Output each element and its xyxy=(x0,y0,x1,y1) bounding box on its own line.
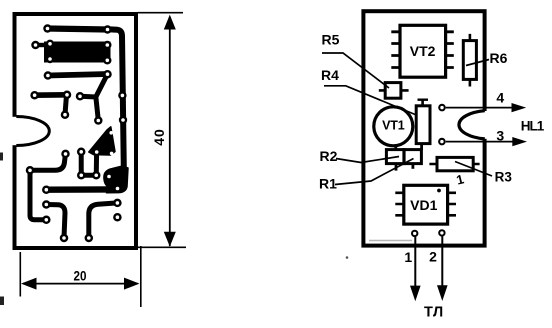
pad D1 xyxy=(30,91,39,100)
svg-text:R1: R1 xyxy=(319,175,337,191)
pad G0 xyxy=(77,148,86,157)
board outline (component side) xyxy=(363,11,489,245)
resistor R6 xyxy=(463,34,476,87)
pad 1 bottom xyxy=(411,230,418,237)
pad C1 xyxy=(44,71,53,80)
wire: stub to pad B0 xyxy=(36,43,48,47)
wire: T1 pad down to G2 xyxy=(94,153,99,175)
pad F3 xyxy=(42,216,51,225)
svg-text:40: 40 xyxy=(151,128,167,146)
pad D2 xyxy=(63,91,72,100)
pad E1 on bus xyxy=(118,91,126,99)
svg-text:R4: R4 xyxy=(321,67,339,83)
pad E2 on bus xyxy=(119,116,127,124)
wire: F1 down then right to F3 xyxy=(30,170,46,220)
pad B4 xyxy=(103,56,111,64)
pad B3 xyxy=(46,55,54,63)
wire: diagonal C2 to junction xyxy=(96,75,107,97)
wire: long trace H to blob xyxy=(46,186,112,193)
wire: D2 down to D3 xyxy=(65,95,67,115)
resistor R3 xyxy=(429,157,479,170)
svg-text:VT2: VT2 xyxy=(410,43,436,59)
pad G2 xyxy=(92,171,101,180)
wire: bend into right vertical bus xyxy=(108,29,124,168)
transistor assembly VT2 xyxy=(391,25,454,77)
svg-text:2: 2 xyxy=(429,249,437,265)
wire: junction down to C4 xyxy=(96,97,99,121)
resistors R1 R2 assembly xyxy=(386,148,421,171)
svg-text:4: 4 xyxy=(496,90,504,106)
svg-text:VT1: VT1 xyxy=(382,119,405,133)
pad K isolated xyxy=(113,213,122,222)
dimension line 40 xyxy=(164,15,176,247)
transistor VT1 xyxy=(374,107,413,151)
wire: G0 down to G1 xyxy=(79,152,84,175)
pad 4 xyxy=(438,104,446,112)
leader line R1 xyxy=(335,159,414,185)
svg-text:20: 20 xyxy=(74,268,87,284)
wire: top trace A1-A2 xyxy=(48,29,108,30)
wire: output 3 arrow xyxy=(446,137,527,146)
svg-text:R3: R3 xyxy=(495,170,513,185)
pad D3 xyxy=(61,110,70,119)
pad F2 xyxy=(61,150,70,159)
dimension line 20 xyxy=(21,278,140,290)
wire: output 1 arrow down xyxy=(410,237,421,301)
copper blob T2 xyxy=(104,166,128,193)
wire: G1-G2 link xyxy=(81,173,96,178)
pad C3 xyxy=(76,92,85,101)
svg-text:R5: R5 xyxy=(322,31,340,47)
leader line R2 xyxy=(336,157,399,163)
wire: trace I xyxy=(46,205,65,238)
svg-text:1: 1 xyxy=(455,171,466,187)
dimension extension line mid-right xyxy=(138,246,186,248)
board outline (track side) xyxy=(11,14,137,248)
leader line R6 xyxy=(466,60,489,66)
scan artifact faint line xyxy=(369,240,412,242)
pad B2 xyxy=(103,41,111,49)
resistor body pointed by R4 xyxy=(416,100,430,151)
pad I1 xyxy=(42,200,51,209)
pad A1 xyxy=(43,24,52,33)
wire: output 4 arrow xyxy=(446,103,526,112)
pad G1 xyxy=(77,171,86,180)
pad H1 xyxy=(42,185,51,194)
scan artifact dot xyxy=(346,256,349,259)
wire: trace J xyxy=(89,203,118,238)
pad F1 xyxy=(26,166,35,175)
wire: trace C1-C2 xyxy=(48,74,108,76)
pad I2 xyxy=(60,234,69,243)
leader line R4 xyxy=(324,86,418,116)
pad B1 xyxy=(46,40,54,48)
pad A2 xyxy=(103,25,112,34)
wire: trace D1-D2 xyxy=(35,92,67,98)
wire: output 2 arrow down xyxy=(437,237,448,302)
svg-text:3: 3 xyxy=(496,128,504,144)
pad J2 xyxy=(85,234,94,243)
wire: trace F2 down and left to F1 xyxy=(30,155,65,170)
IC VD1 xyxy=(395,185,456,224)
svg-text:VD1: VD1 xyxy=(410,197,437,213)
copper triangle T1 xyxy=(89,127,115,155)
svg-text:R2: R2 xyxy=(320,148,338,164)
pad C4 xyxy=(94,116,103,125)
svg-text:ТЛ: ТЛ xyxy=(424,305,444,321)
pad 3 xyxy=(438,138,446,146)
svg-text:HL1: HL1 xyxy=(521,118,545,133)
pad B0 xyxy=(31,41,40,50)
copper pour rectangle xyxy=(44,42,111,63)
dimension extension line bottom-left xyxy=(19,252,21,297)
leader line R5 xyxy=(322,53,389,88)
pad C2 xyxy=(103,70,112,79)
svg-text:1: 1 xyxy=(404,249,412,265)
resistor R5 xyxy=(379,83,409,99)
dimension extension line top xyxy=(138,12,184,14)
wire: stub C3 to junction xyxy=(80,94,97,100)
svg-text:R6: R6 xyxy=(490,50,508,66)
pad J1 xyxy=(113,199,122,208)
dimension extension line bottom-right xyxy=(140,246,142,307)
pad 2 bottom xyxy=(438,229,445,236)
scan artifact left edge xyxy=(0,153,3,161)
leader line R3 xyxy=(455,162,492,177)
